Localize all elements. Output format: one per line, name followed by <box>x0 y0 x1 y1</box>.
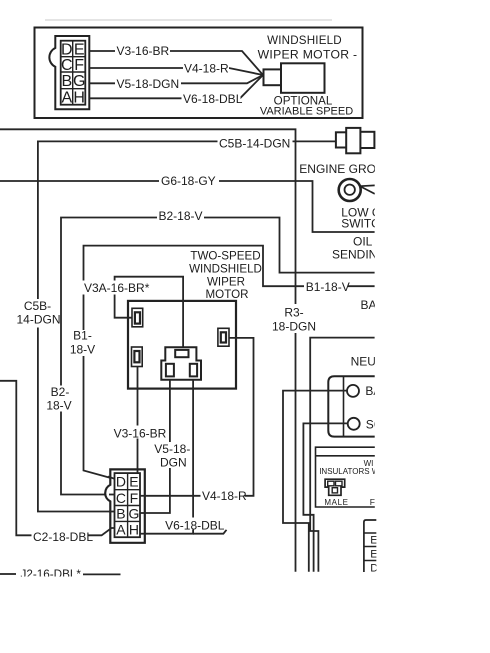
connector J1 (top, pins A-H) <box>49 36 89 109</box>
label R3-18-DGN <box>272 304 317 334</box>
svg-text:V5-18-DGN: V5-18-DGN <box>117 77 180 91</box>
label V6-18-DBL (lower) <box>163 518 227 533</box>
wire V5-18-DGN (pin G to motor) <box>89 75 263 91</box>
svg-text:TWO-SPEED: TWO-SPEED <box>190 249 260 262</box>
svg-text:DGN: DGN <box>160 456 187 470</box>
svg-text:B: B <box>61 73 72 90</box>
svg-text:18-V: 18-V <box>70 343 95 357</box>
svg-text:D: D <box>61 42 73 59</box>
label B2-18-V (horizontal) <box>157 209 204 224</box>
label B1-18-V (horizontal) <box>304 280 350 294</box>
wire V6-18-DBL (pin H to motor) <box>89 75 263 106</box>
terminal circle S <box>348 418 360 430</box>
wire V3-16-BR (lower, slot2 to pin E) <box>137 367 139 474</box>
svg-text:OIL: OIL <box>353 234 373 248</box>
label TWO-SPEED WINDSHIELD WIPER MOTOR <box>189 249 262 301</box>
svg-text:B1-: B1- <box>73 329 92 343</box>
motor terminal slot 1 <box>132 308 143 327</box>
terminal circle B <box>347 385 359 397</box>
label: optional variable speed <box>260 95 353 118</box>
label G6-18-GY <box>159 174 219 188</box>
wire V4-18-R (pin F to motor) <box>89 62 263 76</box>
label V3-16-BR (lower) <box>112 426 167 441</box>
label C5B-14-DGN (horizontal) <box>218 135 293 151</box>
svg-text:B2-: B2- <box>51 385 70 399</box>
motor terminal slot 3 <box>218 328 229 346</box>
svg-text:WIPER: WIPER <box>207 275 245 288</box>
svg-text:G6-18-GY: G6-18-GY <box>161 174 216 188</box>
svg-text:14-DGN: 14-DGN <box>16 313 60 327</box>
pin letters J2 <box>116 473 140 537</box>
neutral switch body <box>328 376 374 436</box>
svg-text:B: B <box>116 506 125 522</box>
pin letters J1 <box>61 42 85 107</box>
wire V3-16-BR (pin E to motor) <box>89 44 263 75</box>
connector J2 (lower, pins A-H) <box>105 469 145 542</box>
wire B1-18-V <box>84 246 375 479</box>
engine ground symbol <box>339 179 375 201</box>
table (clipped at right edge) <box>364 520 378 575</box>
wire to terminal B <box>283 391 347 572</box>
svg-text:18-DGN: 18-DGN <box>272 320 316 334</box>
label C5B-14-DGN (vertical run) <box>13 299 61 328</box>
svg-text:H: H <box>129 522 139 538</box>
wire J2-16-DBL* (bottom edge) <box>0 568 121 581</box>
wire C2-18-DBL (to pin A) <box>0 381 115 536</box>
label C2-18-DBL <box>32 530 94 544</box>
label V3A-16-BR* <box>83 281 152 296</box>
svg-text:C: C <box>116 490 126 506</box>
svg-text:C2-18-DBL: C2-18-DBL <box>33 530 93 544</box>
box: windshield wiper motor section <box>35 28 363 119</box>
svg-text:E: E <box>129 474 138 490</box>
svg-text:A: A <box>116 522 126 538</box>
svg-text:F: F <box>130 490 139 506</box>
svg-text:E: E <box>74 42 85 59</box>
svg-text:C5B-: C5B- <box>24 299 51 313</box>
label V5-18-DGN (lower) <box>152 442 190 470</box>
label: windshield wiper motor <box>258 34 358 61</box>
svg-text:R3-: R3- <box>284 306 303 320</box>
wire stubs through J2 connector shell <box>108 469 146 534</box>
svg-text:V4-18-R: V4-18-R <box>184 62 229 76</box>
svg-text:18-V: 18-V <box>46 399 71 413</box>
svg-text:V5-18-: V5-18- <box>154 442 190 456</box>
svg-text:V3A-16-BR*: V3A-16-BR* <box>84 281 150 295</box>
svg-text:V3-16-BR: V3-16-BR <box>114 426 167 440</box>
svg-text:V4-18-R: V4-18-R <box>202 489 247 503</box>
svg-text:VARIABLE SPEED: VARIABLE SPEED <box>260 106 353 118</box>
svg-text:C5B-14-DGN: C5B-14-DGN <box>219 137 290 151</box>
wiper motor box <box>128 301 236 389</box>
svg-text:G: G <box>73 73 85 90</box>
svg-text:V6-18-DBL: V6-18-DBL <box>183 92 243 106</box>
wire V3A-16-BR* (to terminal 1 and motor plug) <box>115 277 184 349</box>
svg-text:ENGINE GROU: ENGINE GROU <box>299 162 384 176</box>
wire hook to V6 label <box>193 530 226 534</box>
wire V4-18-R (lower, slot3 to pin F) <box>142 338 254 496</box>
motor terminal slot 2 <box>132 347 143 367</box>
label B2-18-V (vertical run) <box>46 385 74 413</box>
faint scan line above top box <box>45 19 332 21</box>
label LOW OIL SWITCH (clipped) <box>341 205 388 230</box>
svg-text:B2-18-V: B2-18-V <box>159 209 203 223</box>
svg-text:C: C <box>61 57 73 74</box>
wire G6-18-GY <box>0 181 375 232</box>
bulkhead connector symbol (C5B) <box>336 128 375 153</box>
insulators box <box>316 447 375 507</box>
svg-text:WINDSHIELD: WINDSHIELD <box>189 262 262 275</box>
svg-text:G: G <box>128 506 139 522</box>
wire V6-18-DBL (lower, plug to pin H) <box>142 380 193 534</box>
label V4-18-R (lower) <box>201 489 248 503</box>
label B1-18-V (vertical run) <box>69 329 96 357</box>
svg-text:WINDSHIELD: WINDSHIELD <box>267 34 342 47</box>
svg-text:MOTOR: MOTOR <box>206 288 249 301</box>
svg-text:A: A <box>61 89 72 106</box>
wire to terminal S <box>303 423 347 571</box>
svg-text:INSULATORS W: INSULATORS W <box>319 467 380 476</box>
wire R3-18-DGN (long line from left edge, down right side) <box>0 129 296 572</box>
neutral start switch section box <box>310 338 374 572</box>
svg-text:V3-16-BR: V3-16-BR <box>117 44 170 58</box>
wire B2-18-V <box>61 218 375 495</box>
svg-text:V6-18-DBL: V6-18-DBL <box>165 518 225 532</box>
svg-text:B1-18-V: B1-18-V <box>306 280 350 294</box>
label WIRING INSULATORS (clipped) <box>319 459 380 476</box>
wire C5B-14-DGN (to bulkhead connector and down to pin B) <box>38 141 336 511</box>
svg-text:WIPER MOTOR -: WIPER MOTOR - <box>258 47 358 61</box>
svg-text:D: D <box>116 473 126 489</box>
male connector icon <box>325 479 345 495</box>
wire V5-18-DGN (lower, plug to pin G) <box>142 380 170 513</box>
svg-text:H: H <box>73 89 85 106</box>
motor plug (center receptacle) <box>161 347 201 380</box>
svg-text:MALE: MALE <box>324 498 348 507</box>
windshield wiper motor symbol <box>264 63 325 93</box>
svg-text:F: F <box>74 57 84 74</box>
label OIL SENDING (clipped) <box>332 234 387 261</box>
